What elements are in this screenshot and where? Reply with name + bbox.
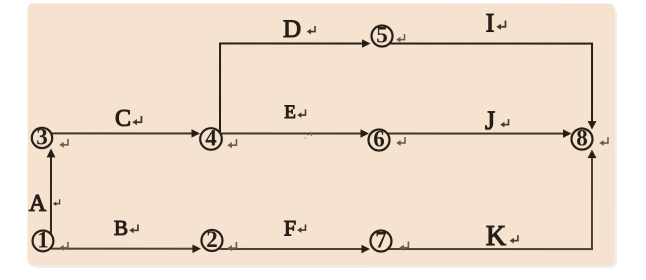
svg-text:J: J: [485, 106, 495, 135]
svg-text:A: A: [29, 191, 47, 217]
svg-text:F: F: [284, 215, 296, 240]
svg-text:7: 7: [375, 227, 387, 252]
svg-text:6: 6: [373, 126, 385, 151]
svg-text:D: D: [283, 16, 301, 43]
svg-text:E: E: [284, 102, 296, 123]
svg-text:C: C: [115, 106, 131, 132]
svg-text:3: 3: [36, 124, 48, 149]
svg-text:5: 5: [376, 22, 388, 47]
svg-text:K: K: [486, 221, 506, 252]
svg-text:.·¹: .·¹: [304, 130, 313, 141]
svg-text:1: 1: [37, 227, 49, 252]
svg-text:2: 2: [206, 227, 218, 252]
svg-text:8: 8: [576, 125, 588, 150]
svg-text:B: B: [114, 216, 128, 240]
svg-text:4: 4: [205, 125, 217, 150]
svg-text:I: I: [486, 9, 495, 38]
